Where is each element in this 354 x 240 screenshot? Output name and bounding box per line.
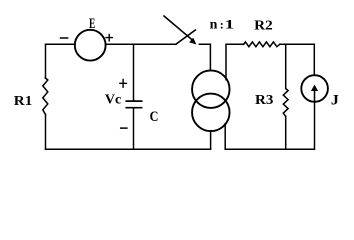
current source J (circle) <box>301 75 328 102</box>
bottom wire right segment <box>225 148 314 150</box>
wire E to switch <box>106 43 176 45</box>
switch S1 closing arrow <box>164 16 193 41</box>
wire top-right corner down to J <box>313 44 315 75</box>
wire transformer bottom-left <box>210 131 212 149</box>
svg-text:Vc: Vc <box>105 93 121 108</box>
wire left edge top stub <box>45 44 47 78</box>
wire R2 to top-right corner <box>280 43 315 45</box>
current source J arrowhead <box>311 85 318 91</box>
wire R3 branch top stub <box>285 44 287 88</box>
plus sign of E <box>106 34 112 40</box>
svg-text:1: 1 <box>225 16 235 31</box>
wire left edge bottom stub <box>45 114 47 149</box>
capacitor C branch bottom wire <box>133 109 135 150</box>
transformer n:1 lower coil circle <box>192 94 230 132</box>
current source J arrow shaft <box>314 90 316 102</box>
svg-text:J: J <box>331 92 340 108</box>
svg-text:R1: R1 <box>14 94 33 109</box>
minus sign of E <box>61 37 68 39</box>
resistor R3 zigzag <box>283 89 288 117</box>
wire J to bottom-right corner <box>314 102 316 149</box>
resistor R1 zigzag <box>43 78 48 114</box>
voltage source E (circle) <box>75 30 106 61</box>
svg-text:R3: R3 <box>255 93 273 108</box>
wire R3 bottom stub <box>285 116 287 149</box>
capacitor C bottom plate <box>126 107 141 109</box>
wire switch to transformer top-left <box>199 44 210 70</box>
bottom wire left segment <box>46 148 211 150</box>
resistor R2 zigzag <box>244 42 280 47</box>
transformer n:1 upper coil circle <box>192 70 230 108</box>
svg-text:E: E <box>89 16 95 32</box>
svg-text:C: C <box>150 109 159 125</box>
capacitor C top plate <box>126 100 141 102</box>
svg-text:R2: R2 <box>254 19 273 34</box>
wire transformer top-right up and right to R2 <box>226 44 244 80</box>
capacitor C branch top wire <box>133 44 135 100</box>
svg-text:n: n <box>210 17 218 32</box>
wire top-left horizontal (left corner to E) <box>46 43 76 45</box>
switch S1 blade (open contact) <box>176 30 196 44</box>
minus sign of capacitor <box>121 127 127 129</box>
svg-text::: : <box>220 17 224 31</box>
plus sign of capacitor <box>120 80 127 88</box>
wire transformer bottom-right <box>224 124 226 150</box>
